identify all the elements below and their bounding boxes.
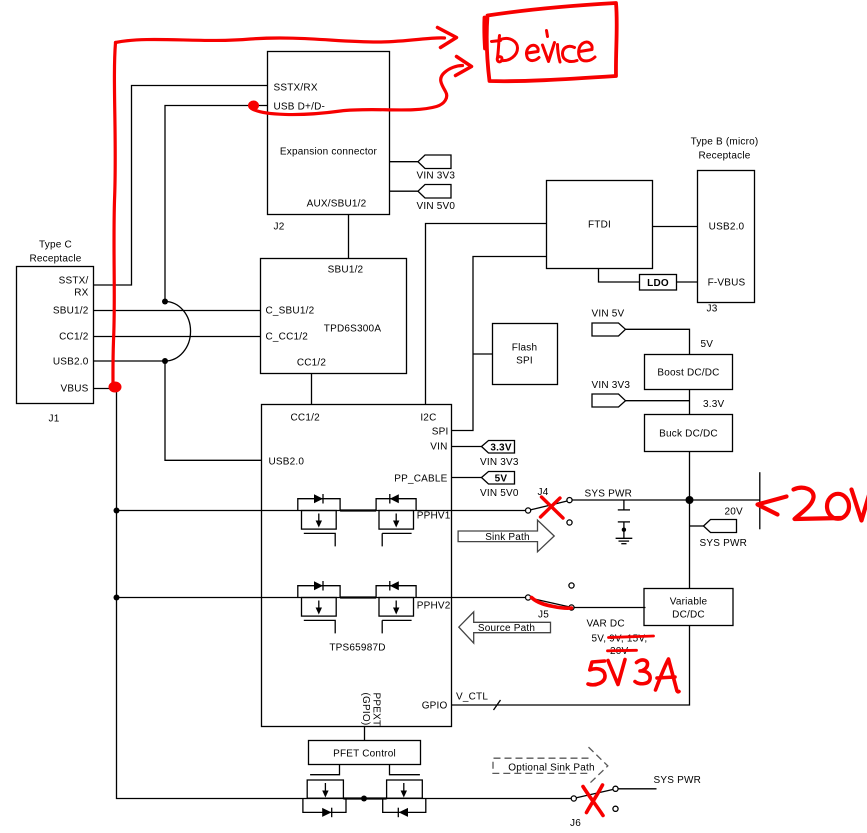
wire J2 VIN5V0 tag stub (390, 190, 419, 192)
wire common node between Q3 and Q4 (340, 596, 376, 598)
svg-text:20V: 20V (725, 507, 744, 518)
PFET Control box (309, 741, 421, 765)
svg-text:VBUS: VBUS (60, 384, 88, 395)
node junction dot bottom of arc (162, 358, 168, 364)
red annotation 20V handwriting (794, 487, 867, 521)
red annotation X at J4 (541, 497, 564, 518)
bus slash on V_CTL (494, 700, 501, 710)
wire USB D+/D- J2 to riser (165, 106, 268, 302)
svg-text:SBU1/2: SBU1/2 (53, 306, 89, 317)
red annotation arrowhead 2 (456, 57, 472, 76)
transistor Q4 PPHV2 right FET with body diode (376, 581, 416, 633)
red annotation vertical line from VBUS (113, 43, 116, 386)
wire PPHV1 rail (117, 510, 526, 512)
wire hop arc over SBU and CC lines (165, 302, 191, 362)
wire TPD CC1/2 to TPS (311, 374, 313, 405)
transistor Q5 bottom left external PFET with body diode (303, 780, 346, 817)
wire PPHV2 rail (117, 597, 526, 599)
wire FTDI to LDO to F-VBUS (599, 269, 640, 283)
IC U-TPD6S300A box (261, 259, 407, 374)
svg-text:AUX/SBU1/2: AUX/SBU1/2 (307, 199, 367, 210)
wire Buck down to SYS PWR rail and Variable DC/DC (689, 452, 691, 589)
svg-text:LDO: LDO (647, 278, 669, 289)
svg-text:Buck DC/DC: Buck DC/DC (659, 429, 718, 440)
svg-text:Receptacle: Receptacle (698, 151, 750, 162)
svg-text:Flash: Flash (512, 343, 537, 354)
wire TPS to PFET Control (364, 727, 366, 741)
wire V_CTL GPIO to Variable DC/DC (452, 626, 690, 706)
tag SYS PWR 20V (690, 507, 748, 550)
svg-text:SPI: SPI (432, 427, 449, 438)
svg-text:VIN: VIN (430, 442, 447, 453)
wire J2 VIN3V3 tag stub (390, 161, 419, 163)
regulator Variable DC/DC box (644, 589, 733, 626)
wire Boost to Buck (689, 390, 691, 415)
svg-text:SYS PWR: SYS PWR (654, 775, 702, 786)
arrow Sink Path (458, 520, 554, 552)
svg-text:RX: RX (74, 288, 88, 299)
switch J4 (526, 498, 573, 526)
memory Flash SPI box (493, 324, 558, 385)
svg-text:CC1/2: CC1/2 (297, 358, 327, 369)
wire AUX/SBU to TPD (348, 215, 350, 259)
red annotation VBUS blob (109, 382, 122, 393)
node SYS PWR junction (686, 496, 694, 504)
svg-text:3.3V: 3.3V (490, 443, 512, 454)
svg-text:5V: 5V (495, 474, 508, 485)
svg-text:(GPIO): (GPIO) (360, 693, 371, 726)
red annotation wavy line from USB D+/D- (252, 66, 463, 115)
svg-text:PPHV1: PPHV1 (417, 511, 451, 522)
svg-text:FTDI: FTDI (588, 220, 611, 231)
wire SYS PWR horizontal (573, 499, 760, 501)
wire common node between Q1 and Q2 (340, 509, 376, 511)
connector J2 expansion connector box (268, 52, 390, 233)
svg-text:J3: J3 (707, 304, 718, 315)
svg-text:Optional Sink Path: Optional Sink Path (508, 763, 594, 774)
arrow Source Path (459, 612, 551, 643)
tag VIN 5V to boost (592, 309, 626, 337)
wire USB2.0 J1 to riser (94, 360, 166, 362)
svg-text:PFET Control: PFET Control (333, 749, 396, 760)
wire J6 to SYS PWR (618, 788, 656, 790)
svg-text:USB2.0: USB2.0 (269, 457, 305, 468)
svg-text:I2C: I2C (420, 413, 436, 424)
svg-text:PP_CABLE: PP_CABLE (394, 474, 447, 485)
svg-text:DC/DC: DC/DC (672, 610, 705, 621)
svg-text:J2: J2 (274, 222, 285, 233)
svg-text:Sink Path: Sink Path (485, 532, 530, 543)
svg-text:PPHV2: PPHV2 (417, 601, 451, 612)
tag VIN 3V3 to buck (592, 380, 631, 407)
transistor Q2 PPHV1 right FET with body diode (376, 494, 416, 546)
svg-text:Variable: Variable (670, 597, 708, 608)
svg-text:GPIO: GPIO (422, 701, 448, 712)
red annotation arrow left of 20V (758, 497, 787, 515)
svg-text:Type C: Type C (39, 240, 72, 251)
svg-text:PPEXT: PPEXT (371, 693, 382, 727)
wire VIN 3V3 to Buck (626, 400, 690, 402)
connector J3 Type B micro receptacle box (691, 137, 759, 315)
tag 3.3V VIN 3V3 (480, 441, 519, 469)
wire VIN 5V to Boost (626, 329, 690, 354)
wire FTDI USB2.0 to J3 (653, 226, 698, 228)
regulator LDO box (640, 275, 677, 291)
wire riser down to TPS USB2.0 (165, 361, 262, 460)
svg-text:SSTX/RX: SSTX/RX (274, 83, 318, 94)
svg-text:CC1/2: CC1/2 (291, 413, 321, 424)
wire VIN tag stub (452, 446, 482, 448)
svg-text:SYS PWR: SYS PWR (585, 489, 633, 500)
svg-text:VIN 5V: VIN 5V (592, 309, 625, 320)
wire I2C FTDI to TPS (426, 224, 547, 405)
off-page bar SYS PWR (759, 472, 761, 529)
red annotation Device box (484, 3, 616, 81)
transistor Q1 PPHV1 left FET with body diode (298, 494, 340, 546)
tag VIN 3V3 at J2 (417, 155, 456, 182)
svg-text:J6: J6 (570, 818, 581, 829)
svg-text:Boost DC/DC: Boost DC/DC (657, 368, 719, 379)
regulator Buck DC/DC box (645, 415, 733, 452)
red annotation stroke at J5 (532, 598, 572, 609)
svg-text:VIN 3V3: VIN 3V3 (480, 457, 519, 468)
wire common node between Q5 and Q6 (343, 797, 386, 799)
IC FTDI box (547, 181, 653, 269)
svg-text:SYS PWR: SYS PWR (700, 538, 748, 549)
svg-text:F-VBUS: F-VBUS (708, 278, 746, 289)
svg-text:Type B (micro): Type B (micro) (691, 137, 759, 148)
wire PFET gate right (390, 765, 420, 775)
red annotation X at J6 (583, 785, 603, 816)
svg-text:Source Path: Source Path (478, 623, 535, 634)
node VBUS-PPHV2 junction (114, 595, 120, 601)
switch J5 (526, 583, 575, 610)
svg-text:VIN 3V3: VIN 3V3 (592, 380, 631, 391)
red annotation strikethrough 9V 15V (609, 636, 654, 638)
svg-text:Receptacle: Receptacle (29, 254, 81, 265)
wire SPI FTDI to TPS (452, 257, 547, 431)
switch J6 (571, 786, 618, 811)
IC U1 TPS65987D box (262, 405, 452, 727)
svg-text:V_CTL: V_CTL (456, 692, 488, 703)
svg-text:USB2.0: USB2.0 (709, 222, 745, 233)
svg-text:5V: 5V (701, 339, 714, 350)
svg-text:USB D+/D-: USB D+/D- (274, 102, 326, 113)
wire J5 to Variable DC/DC (574, 607, 646, 609)
tag VIN 5V0 at J2 (417, 185, 456, 213)
svg-text:3.3V: 3.3V (703, 399, 725, 410)
svg-text:VIN 5V0: VIN 5V0 (480, 488, 519, 499)
svg-text:CC1/2: CC1/2 (59, 332, 89, 343)
transistor Q6 bottom right external PFET with body diode (383, 780, 426, 817)
red annotation strikethrough 20V (608, 649, 637, 652)
red annotation blob at USB D+/D- (248, 101, 259, 111)
svg-text:C_SBU1/2: C_SBU1/2 (266, 306, 315, 317)
wire Flash SPI stub (473, 353, 493, 355)
wire SBU1/2 J1 to TPD (94, 310, 261, 312)
wire SSTX/RX J1 to J2 (94, 86, 268, 286)
svg-text:USB2.0: USB2.0 (53, 357, 89, 368)
node junction dot top of arc (162, 299, 168, 305)
svg-text:TPD6S300A: TPD6S300A (324, 324, 382, 335)
svg-text:VIN 5V0: VIN 5V0 (417, 201, 456, 212)
wire PP_CABLE tag stub (452, 477, 482, 479)
svg-text:VAR DC: VAR DC (587, 619, 625, 630)
transistor Q3 PPHV2 left FET with body diode (298, 581, 340, 633)
wire CC1/2 J1 to TPD (94, 336, 261, 338)
svg-text:SBU1/2: SBU1/2 (328, 265, 364, 276)
red annotation 5V3A handwriting (588, 659, 679, 692)
node VBUS-PPHV1 junction (114, 508, 120, 514)
svg-text:J1: J1 (49, 414, 60, 425)
svg-text:J5: J5 (538, 610, 549, 621)
svg-text:SPI: SPI (516, 356, 533, 367)
svg-text:C_CC1/2: C_CC1/2 (266, 332, 309, 343)
connector J1 Type C receptacle box (17, 240, 94, 425)
ground (616, 538, 633, 543)
wire VBUS J1 down left rail (94, 389, 572, 799)
red annotation top line to Device (116, 38, 445, 43)
svg-text:Expansion connector: Expansion connector (280, 147, 378, 158)
node junction dot between bottom PFETs (361, 796, 367, 802)
svg-text:SSTX/: SSTX/ (59, 276, 89, 287)
red annotation arrowhead 1 (438, 28, 457, 48)
red annotation Device handwriting (492, 31, 596, 63)
svg-text:VIN 3V3: VIN 3V3 (417, 171, 456, 182)
wire PFET gate left (310, 765, 339, 775)
capacitor on SYS PWR (618, 500, 630, 538)
svg-text:TPS65987D: TPS65987D (329, 643, 385, 654)
tag 5V VIN 5V0 (480, 472, 519, 500)
arrow Optional Sink Path dashed (493, 747, 608, 784)
regulator Boost DC/DC box (645, 355, 733, 390)
